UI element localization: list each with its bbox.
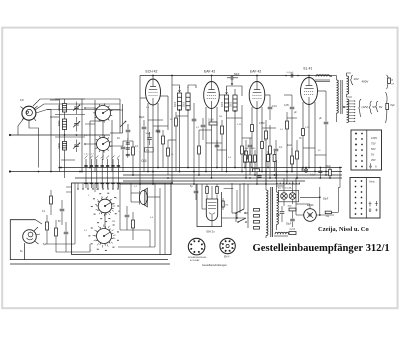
wire V4 top: [256, 75, 258, 82]
trimmer T1: [120, 121, 126, 127]
svg-text:0,1µF 25000: 0,1µF 25000: [243, 148, 256, 150]
label spoke specks S1c: [91, 193, 119, 219]
label em: [190, 186, 193, 188]
resistor R af2: [269, 125, 272, 178]
label mains sw: [254, 210, 259, 230]
coil L1a: [62, 104, 66, 113]
resistor R sw2: [46, 215, 49, 240]
capacitor C tx2: [215, 140, 220, 147]
resistor R el2: [296, 140, 299, 178]
junction bus dots: [38, 167, 341, 185]
capacitor C coup: [268, 95, 278, 120]
label sw tiny1: [88, 195, 120, 252]
svg-text:Netz: Netz: [370, 181, 376, 184]
svg-text:EZ 40: EZ 40: [307, 204, 314, 207]
resistor R r3: [254, 150, 257, 175]
svg-text:8µF: 8µF: [391, 104, 396, 107]
wire jog o: [315, 154, 326, 156]
svg-text:0,01µF: 0,01µF: [287, 72, 295, 74]
svg-text:1kΩ: 1kΩ: [287, 144, 292, 147]
heater winding W2: [274, 229, 296, 236]
wire box inner: [118, 230, 155, 247]
box switch area: [72, 183, 172, 255]
svg-text:0,5M: 0,5M: [259, 122, 264, 125]
wire jog d: [199, 129, 212, 131]
label heater: [359, 99, 383, 117]
switch contact arrows: [85, 156, 120, 159]
wire left riser: [47, 99, 123, 172]
svg-text:0,01: 0,01: [272, 105, 277, 108]
label contact row: [84, 154, 94, 156]
wire jog m: [90, 120, 103, 122]
capacitor C box1: [125, 206, 130, 230]
capacitor C em1: [194, 184, 199, 200]
coil IFT2b: [233, 89, 237, 168]
label socket X2: [224, 257, 230, 259]
wire AVC line: [9, 134, 110, 136]
label tiny t7: [280, 129, 284, 131]
label spoke specks S1d: [88, 221, 119, 251]
svg-text:3000: 3000: [184, 101, 186, 107]
label sockets: [202, 263, 228, 267]
trimmer CT2: [73, 117, 80, 132]
svg-text:M: M: [118, 211, 120, 213]
label tiny t14: [134, 186, 138, 188]
coil L2a: [62, 119, 66, 130]
label socket X1: [188, 256, 208, 262]
label tiny t18: [84, 230, 88, 232]
wire ps rail: [296, 178, 340, 215]
wire jog h: [262, 127, 276, 129]
label osc box: [145, 148, 154, 153]
wire V2 top: [152, 75, 154, 79]
label tiny t13: [228, 157, 232, 159]
resistor R eaf1: [221, 120, 224, 172]
capacitor C osc2: [126, 124, 131, 140]
junction dots coils: [58, 134, 83, 172]
capacitor C ech: [142, 120, 147, 172]
switch S1d: [94, 226, 113, 245]
switch S1d labels: [93, 225, 116, 248]
svg-text:50pF: 50pF: [139, 116, 145, 119]
label ech parts: [139, 116, 161, 134]
label osc 05: [142, 159, 147, 163]
label pin row: [276, 183, 300, 184]
junction IFT2: [226, 110, 236, 112]
svg-text:10V: 10V: [354, 77, 359, 81]
capacitor C pil: [310, 166, 331, 178]
wire bus C: [75, 177, 342, 179]
svg-text:5µF: 5µF: [43, 244, 48, 246]
wire stub row boxA: [77, 183, 118, 190]
tube V1 socket top-view: [21, 106, 38, 121]
resistor R af1: [265, 120, 268, 184]
trimmer CT3: [73, 140, 80, 153]
junction heater: [343, 106, 347, 108]
label tiny t4: [219, 116, 222, 118]
transformer T-mains secondary: [277, 186, 279, 230]
wire jog c: [176, 115, 188, 117]
capacitor C ps2: [286, 211, 295, 227]
svg-text:ECH 42: ECH 42: [146, 70, 158, 74]
resistor R det2: [245, 140, 248, 178]
label choke1: [351, 75, 369, 85]
svg-text:3000: 3000: [222, 101, 224, 107]
svg-text:50pF: 50pF: [234, 73, 240, 76]
resistor R r4: [267, 151, 270, 168]
label tiny t15: [96, 189, 99, 191]
wire riser group bottom: [75, 183, 165, 255]
wire V1 pin leads: [18, 99, 120, 168]
switch S1b: [94, 135, 111, 152]
wire top anode bus: [140, 75, 332, 77]
wire V4 pins: [252, 95, 270, 184]
capacitor C out1: [387, 75, 395, 89]
wire jog j: [303, 147, 315, 149]
svg-text:400V: 400V: [362, 80, 369, 84]
wire jog f: [227, 117, 243, 119]
tube V3 EAF42: [204, 70, 220, 109]
resistor R el1: [286, 112, 289, 184]
capacitor C sw1: [60, 200, 65, 225]
coil IFT1a: [177, 87, 181, 172]
label el1: [284, 104, 297, 114]
wire IFT2 top: [227, 86, 243, 96]
junction row: [265, 167, 321, 179]
label L1: [58, 105, 61, 111]
switch S1c labels: [95, 196, 115, 216]
resistor R r5: [273, 151, 276, 172]
label title: [253, 243, 390, 254]
label IFT2: [222, 101, 233, 107]
wire coil column risers: [50, 99, 82, 178]
tube V7 EM: [206, 199, 217, 234]
wire switch column: [90, 100, 112, 228]
junction IFT1: [179, 109, 189, 111]
capacitor C top50: [227, 73, 240, 85]
resistor R box1: [132, 212, 135, 240]
svg-text:0,1µF: 0,1µF: [310, 175, 317, 177]
resistor R tx3: [302, 129, 305, 136]
coil IFT2a: [224, 89, 228, 172]
wire bus D: [123, 180, 305, 182]
resistor R ech2: [167, 140, 170, 175]
label tiny t3: [196, 127, 200, 129]
capacitor C r1: [258, 176, 262, 177]
transformer T-out primary: [309, 75, 332, 82]
resistor R det1: [241, 105, 244, 172]
tube V8 rectifier: [296, 204, 334, 221]
label L2: [58, 120, 61, 126]
capacitor C out2: [386, 92, 396, 123]
resistor R r2: [249, 150, 252, 172]
wire ground bus: [9, 170, 342, 172]
label company: [318, 226, 369, 233]
lamp P1: [304, 169, 308, 173]
wire riser x232: [231, 183, 233, 213]
svg-text:5V: 5V: [373, 105, 377, 109]
svg-text:EM 2x: EM 2x: [207, 230, 216, 234]
wire boxA left stub: [66, 187, 72, 192]
socket X2: [220, 238, 235, 253]
wire box top join: [36, 220, 43, 224]
wire V3 pins: [206, 95, 225, 178]
svg-text:EAF 42: EAF 42: [204, 70, 215, 74]
resistor R eaf2: [208, 119, 217, 126]
wire bottom long: [10, 263, 170, 265]
svg-text:2M: 2M: [112, 221, 115, 223]
svg-text:Czeija, Nissl u. Co: Czeija, Nissl u. Co: [318, 226, 369, 233]
label tiny t11: [117, 159, 119, 161]
svg-text:3000: 3000: [175, 101, 177, 107]
wire jog i: [287, 117, 297, 119]
capacitor C bus2: [285, 72, 299, 77]
wire V5 pins: [303, 91, 326, 172]
wire V5 top: [308, 75, 310, 78]
resistor R mid: [253, 169, 260, 172]
label mid1: [243, 162, 257, 164]
wire sw links: [47, 190, 90, 252]
wire riser x244: [236, 183, 248, 222]
resistor R if2: [198, 130, 201, 175]
wire jog l: [61, 159, 75, 161]
wire V3 top: [211, 75, 213, 82]
resistor R pil: [329, 168, 332, 179]
label r row: [243, 148, 256, 150]
heater winding W1: [347, 99, 356, 122]
trimmer CT1: [73, 102, 80, 115]
svg-text:50µF: 50µF: [323, 198, 329, 200]
cone hatch: [145, 189, 147, 206]
svg-text:50µF: 50µF: [326, 166, 332, 168]
wire ps out: [300, 187, 329, 216]
resistor R sw3: [55, 220, 58, 248]
resistor R ps1: [288, 206, 297, 211]
switch S1a: [93, 103, 112, 122]
wire jog e: [206, 142, 222, 144]
label af parts: [259, 122, 283, 149]
rectifier block: [278, 187, 299, 202]
wire jog b: [153, 125, 168, 127]
svg-text:5000: 5000: [58, 120, 61, 126]
switch S1c: [96, 197, 114, 215]
wire Lrow2: [55, 114, 85, 116]
label L3: [58, 143, 61, 149]
label tiny t17: [112, 221, 115, 223]
svg-text:5000: 5000: [58, 105, 61, 111]
wire Lrow3: [55, 136, 85, 138]
choke Ch1: [347, 73, 353, 97]
wire Lrow1: [55, 98, 85, 100]
transformer T-out secondary: [332, 76, 342, 123]
resistor R em2: [222, 198, 228, 210]
svg-text:2,2 Ω: 2,2 Ω: [290, 229, 296, 231]
svg-text:0,1M: 0,1M: [208, 119, 213, 122]
tube V5 EL41: [301, 67, 318, 105]
wire sw-coil links: [84, 107, 123, 146]
wire drive links: [131, 188, 160, 255]
label el2: [287, 137, 302, 147]
svg-text:EM 4: EM 4: [224, 257, 230, 259]
label sw parts: [42, 211, 61, 246]
wire IFT1 top: [171, 75, 196, 88]
resistor R tx2: [261, 142, 264, 149]
wire V2 pins: [140, 76, 168, 185]
wire jog g: [242, 137, 252, 139]
resistor R osc1: [132, 141, 135, 175]
svg-text:50µF: 50µF: [286, 224, 292, 226]
coil IFT1b: [186, 87, 190, 168]
wire jog p: [217, 149, 227, 151]
label tiny t12: [171, 154, 174, 156]
resistor R em1: [206, 184, 219, 194]
resistor R ech1: [162, 130, 165, 168]
wire jog k: [123, 140, 133, 142]
resistor R el3: [291, 148, 294, 172]
label tiny t6: [264, 140, 267, 142]
label tiny t8: [305, 127, 310, 129]
wire bus A: [60, 167, 342, 169]
svg-text:5000: 5000: [58, 143, 61, 149]
tube V4 EAF42b: [249, 70, 265, 109]
capacitor C osc1: [121, 141, 126, 172]
label tiny t1: [146, 107, 150, 109]
label IFT1: [175, 101, 186, 107]
capacitor C if1: [192, 103, 197, 184]
terminal block TB2: [350, 178, 380, 219]
fuse F1: [254, 209, 260, 230]
switch contact row: [84, 159, 120, 188]
svg-text:2M: 2M: [219, 116, 222, 118]
wire EM pins: [202, 184, 217, 227]
transformer T-mains primary: [266, 184, 268, 238]
wire EM right: [222, 189, 246, 219]
capacitor C tx1: [156, 126, 161, 132]
wire riser x172: [171, 85, 173, 183]
box EM area: [197, 184, 222, 227]
capacitor C osc3: [126, 138, 130, 158]
resistor R ps3: [325, 188, 338, 219]
label tiny t5: [237, 124, 242, 126]
svg-text:(12V): (12V): [362, 105, 369, 109]
wire bus B: [123, 174, 342, 176]
switch mains: [232, 196, 248, 228]
svg-text:5µF: 5µF: [276, 215, 281, 217]
svg-text:3000: 3000: [231, 101, 233, 107]
label osc parts: [117, 137, 139, 148]
socket X1: [188, 238, 205, 255]
tube V6 bottom: [20, 227, 40, 260]
box audio loop: [10, 220, 168, 260]
resistor R if1: [175, 112, 178, 172]
svg-text:50pF: 50pF: [146, 133, 152, 135]
label tiny t16: [150, 217, 154, 219]
tube V2 ECH42: [146, 70, 161, 106]
svg-text:0,05: 0,05: [284, 104, 289, 107]
capacitor C ps1: [276, 206, 284, 222]
label tiny t9: [318, 150, 321, 152]
label tiny t2: [170, 119, 173, 121]
capacitor C el1: [284, 95, 294, 172]
svg-text:a b c d e f: a b c d e f: [84, 154, 94, 156]
wire jog a: [148, 119, 163, 121]
svg-text:EL 41: EL 41: [304, 67, 313, 71]
transformer T-drive: [140, 188, 148, 207]
svg-text:6V: 6V: [379, 105, 383, 109]
wire trans risers: [266, 160, 340, 204]
label ant small: [20, 98, 24, 102]
capacitor C det: [248, 138, 253, 175]
svg-text:1M: 1M: [225, 205, 228, 207]
wire bus E: [120, 183, 300, 185]
svg-text:4kΩ: 4kΩ: [288, 206, 292, 208]
wire jog n: [168, 139, 176, 141]
label tiny t10: [84, 135, 88, 137]
terminal block TB1: [351, 130, 382, 170]
transformer T-mains core: [271, 187, 273, 237]
svg-text:EAF 42: EAF 42: [250, 70, 261, 74]
capacitor C eaf1: [201, 118, 206, 140]
capacitor C af: [274, 140, 279, 178]
resistor R tx1: [251, 125, 254, 132]
resistor R r1: [244, 150, 247, 168]
wire rect links: [277, 186, 293, 206]
capacitor C sw2: [64, 222, 69, 248]
resistor R sw1: [50, 190, 53, 215]
capacitor C osc50: [146, 132, 152, 145]
capacitor C el2: [319, 91, 328, 175]
coil L3a: [62, 142, 66, 151]
svg-text:Gestelleinbauempfänger 312/1: Gestelleinbauempfänger 312/1: [253, 243, 390, 254]
